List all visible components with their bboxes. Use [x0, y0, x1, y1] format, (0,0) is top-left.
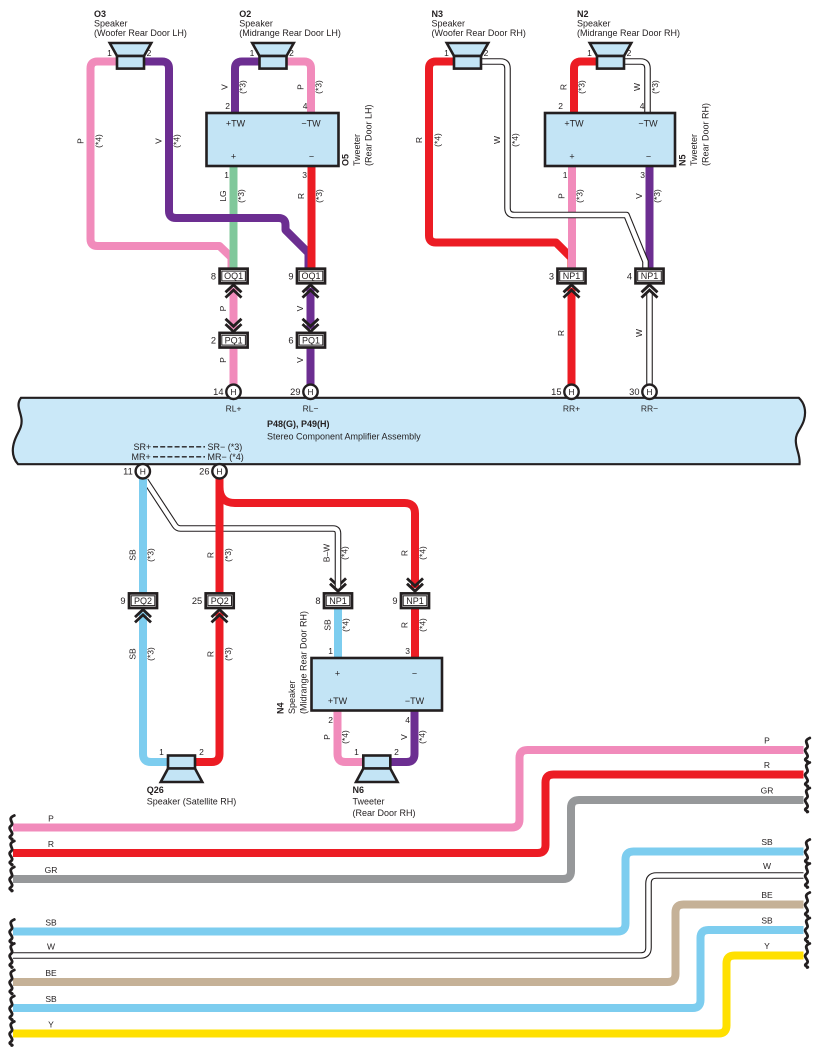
svg-text:W: W	[634, 329, 644, 337]
wire P (*4) speaker N4 pin2 to tweeter N6 pin1	[322, 711, 364, 762]
svg-text:H: H	[230, 387, 236, 397]
svg-text:R: R	[206, 651, 216, 657]
svg-text:NP1: NP1	[641, 271, 659, 281]
svg-text:SB: SB	[761, 837, 773, 847]
svg-text:(Midrange Rear Door RH): (Midrange Rear Door RH)	[299, 611, 309, 714]
svg-text:Tweeter: Tweeter	[353, 797, 385, 807]
speaker unit N4 (midrange rear door RH)	[276, 611, 443, 725]
svg-text:R: R	[556, 330, 566, 336]
svg-text:P: P	[557, 193, 567, 199]
svg-text:MR+: MR+	[132, 452, 151, 462]
svg-text:P: P	[218, 357, 228, 363]
svg-text:25: 25	[192, 596, 202, 606]
wire SB (*3) amplifier pin 11 to connector PQ2-9	[128, 478, 156, 593]
svg-text:2: 2	[484, 48, 489, 58]
svg-text:Tweeter: Tweeter	[352, 134, 362, 166]
amplifier pin 29 (H) RL-	[290, 385, 318, 399]
junction chevrons below OQ1-9	[303, 285, 319, 298]
svg-text:N5: N5	[678, 154, 688, 166]
svg-text:1: 1	[444, 48, 449, 58]
wire B-W (*4) amplifier pin 11 to connector NP1-8	[146, 481, 350, 592]
svg-text:3: 3	[302, 170, 307, 180]
svg-text:GR: GR	[761, 786, 774, 796]
svg-text:6: 6	[288, 336, 293, 346]
svg-text:P: P	[48, 814, 54, 824]
svg-text:V: V	[295, 357, 305, 363]
svg-text:1: 1	[328, 646, 333, 656]
svg-text:OQ1: OQ1	[301, 271, 320, 281]
speaker O3 (woofer rear door LH)	[94, 9, 187, 69]
svg-text:SR+: SR+	[134, 442, 152, 452]
svg-text:(*3): (*3)	[146, 647, 156, 661]
svg-text:V: V	[220, 84, 230, 90]
svg-text:W: W	[632, 83, 642, 91]
svg-text:BE: BE	[45, 968, 57, 978]
svg-text:30: 30	[629, 387, 639, 397]
svg-text:R: R	[414, 137, 424, 143]
svg-text:SR− (*3): SR− (*3)	[208, 442, 243, 452]
wire P connector OQ1-8 to PQ1-2	[218, 288, 234, 329]
svg-text:(*4): (*4)	[341, 618, 351, 632]
junction chevrons below PQ2-25	[212, 610, 228, 623]
wire P connector PQ1-2 to amplifier pin 14	[218, 347, 234, 387]
junction chevrons above NP1-8	[0, 0, 1, 1]
svg-text:Speaker (Satellite RH): Speaker (Satellite RH)	[147, 797, 237, 807]
svg-text:Speaker: Speaker	[239, 19, 273, 29]
svg-text:(*4): (*4)	[340, 730, 350, 744]
wire P (*4) speaker O3 pin1 to connector OQ1-8	[76, 62, 232, 269]
svg-text:V: V	[154, 138, 164, 144]
svg-text:R: R	[206, 552, 216, 558]
svg-text:Stereo Component Amplifier Ass: Stereo Component Amplifier Assembly	[267, 432, 421, 442]
harness wire W (to front)	[10, 861, 810, 968]
wire V (*4) speaker N4 pin4 to tweeter N6 pin2	[390, 711, 428, 762]
wire R (*4) speaker N3 pin1 to connector NP1-3	[414, 62, 572, 269]
junction chevrons below NP1-3	[564, 285, 580, 298]
svg-text:(*3): (*3)	[575, 189, 585, 203]
svg-text:Tweeter: Tweeter	[689, 134, 699, 166]
svg-text:H: H	[307, 387, 313, 397]
svg-text:H: H	[140, 466, 146, 476]
speaker N2 (midrange rear door RH)	[577, 9, 680, 69]
svg-text:LG: LG	[218, 190, 228, 201]
svg-text:(*4): (*4)	[94, 134, 104, 148]
svg-text:B–W: B–W	[322, 544, 332, 562]
svg-text:W: W	[763, 861, 771, 871]
connector PQ1 pin 6	[288, 333, 325, 348]
svg-text:(Midrange Rear Door RH): (Midrange Rear Door RH)	[577, 28, 680, 38]
svg-text:V: V	[399, 734, 409, 740]
connector OQ1 pin 8	[211, 269, 248, 284]
speaker N3 (woofer rear door RH)	[432, 9, 526, 69]
svg-text:(*4): (*4)	[172, 134, 182, 148]
wire W (*3) speaker N2 pin2 to tweeter N5 pin4	[623, 62, 660, 115]
wire P (*3) speaker O2 pin2 to tweeter O5 pin4	[285, 62, 324, 115]
svg-text:Speaker: Speaker	[432, 19, 466, 29]
svg-text:2: 2	[199, 747, 204, 757]
svg-text:9: 9	[120, 596, 125, 606]
svg-text:2: 2	[211, 336, 216, 346]
svg-text:8: 8	[315, 596, 320, 606]
svg-text:+TW: +TW	[328, 696, 348, 706]
harness wire SB (to front)	[10, 837, 810, 944]
svg-text:+: +	[231, 152, 236, 162]
svg-text:(*4): (*4)	[418, 546, 428, 560]
svg-text:−: −	[646, 152, 651, 162]
svg-text:R: R	[400, 622, 410, 628]
svg-text:9: 9	[288, 271, 293, 281]
amplifier pin 11 (H)	[123, 464, 150, 478]
amplifier pin 14 (H) RL+	[213, 385, 241, 399]
junction chevrons above NP1-9	[407, 578, 423, 591]
svg-text:(*4): (*4)	[340, 546, 350, 560]
svg-text:Speaker: Speaker	[577, 19, 611, 29]
svg-text:P: P	[296, 84, 306, 90]
connector NP1 pin 3	[549, 269, 586, 284]
harness wire R (to front)	[10, 760, 810, 865]
svg-text:2: 2	[328, 715, 333, 725]
svg-text:(*4): (*4)	[418, 618, 428, 632]
svg-text:−TW: −TW	[301, 119, 321, 129]
amplifier pin 26 (H)	[199, 464, 227, 478]
svg-text:29: 29	[290, 387, 300, 397]
svg-text:9: 9	[392, 596, 397, 606]
wire R (*4) amplifier pin 26 branch to connector NP1-9	[220, 479, 428, 588]
svg-text:GR: GR	[45, 865, 58, 875]
svg-text:R: R	[400, 550, 410, 556]
svg-text:(Rear Door RH): (Rear Door RH)	[353, 808, 416, 818]
svg-text:8: 8	[211, 271, 216, 281]
svg-text:26: 26	[199, 467, 209, 477]
svg-text:SB: SB	[45, 918, 57, 928]
wire R (*3) tweeter O5 pin3 to connector OQ1-9	[296, 165, 324, 268]
tweeter N6 (rear door RH)	[353, 747, 416, 818]
harness wire SB 2 (to front)	[10, 916, 810, 1021]
svg-text:1: 1	[107, 48, 112, 58]
svg-text:N3: N3	[432, 9, 444, 19]
svg-text:3: 3	[549, 271, 554, 281]
svg-text:H: H	[568, 387, 574, 397]
amplifier assembly P48(G)/P49(H) band	[13, 398, 805, 464]
amplifier pin 15 (H) RR+	[551, 385, 579, 399]
svg-text:SB: SB	[128, 648, 138, 660]
svg-text:BE: BE	[761, 890, 773, 900]
svg-text:V: V	[634, 193, 644, 199]
svg-text:N2: N2	[577, 9, 589, 19]
wire V connector OQ1-9 to PQ1-6	[295, 288, 311, 329]
svg-text:PQ2: PQ2	[211, 596, 229, 606]
junction chevrons above PQ1-2	[226, 319, 242, 332]
svg-text:3: 3	[640, 170, 645, 180]
connector PQ2 pin 9	[120, 593, 157, 608]
svg-text:4: 4	[303, 101, 308, 111]
svg-text:O2: O2	[239, 9, 251, 19]
svg-text:(*3): (*3)	[236, 189, 246, 203]
svg-text:−TW: −TW	[405, 696, 425, 706]
svg-text:(*3): (*3)	[238, 80, 248, 94]
svg-text:(*3): (*3)	[577, 80, 587, 94]
svg-text:+TW: +TW	[564, 119, 584, 129]
connector OQ1 pin 9	[288, 269, 325, 284]
wire R (*4) connector NP1-9 to speaker N4 pin3	[400, 608, 428, 658]
wire P (*3) tweeter N5 pin1 to connector NP1-3	[557, 165, 585, 268]
svg-text:NP1: NP1	[329, 596, 347, 606]
svg-text:(Midrange Rear Door LH): (Midrange Rear Door LH)	[239, 28, 341, 38]
harness wire Y (to front)	[10, 941, 810, 1046]
speaker O2 (midrange rear door LH)	[239, 9, 341, 69]
svg-text:(Woofer Rear Door RH): (Woofer Rear Door RH)	[432, 28, 526, 38]
svg-text:SB: SB	[761, 916, 773, 926]
svg-text:1: 1	[587, 48, 592, 58]
svg-text:15: 15	[551, 387, 561, 397]
svg-text:H: H	[216, 466, 222, 476]
svg-text:P48(G), P49(H): P48(G), P49(H)	[267, 419, 330, 429]
svg-text:1: 1	[224, 170, 229, 180]
svg-text:2: 2	[225, 101, 230, 111]
wire R (*3) amplifier pin 26 to connector PQ2-25	[206, 478, 234, 593]
svg-text:PQ2: PQ2	[134, 596, 152, 606]
svg-text:P: P	[218, 305, 228, 311]
junction chevrons above PQ1-6	[303, 319, 319, 332]
svg-text:O5: O5	[341, 154, 351, 166]
svg-text:(*3): (*3)	[146, 548, 156, 562]
wire V (*4) speaker O3 pin2 to connector OQ1-9	[143, 62, 309, 269]
svg-text:R: R	[48, 839, 54, 849]
svg-text:N4: N4	[276, 702, 286, 714]
svg-text:−: −	[309, 152, 314, 162]
net SR+ to SR- internal link	[134, 442, 243, 452]
svg-text:(*3): (*3)	[223, 647, 233, 661]
svg-text:Speaker: Speaker	[94, 19, 128, 29]
svg-text:2: 2	[147, 48, 152, 58]
svg-text:−TW: −TW	[638, 119, 658, 129]
svg-text:P: P	[322, 734, 332, 740]
svg-text:(*3): (*3)	[314, 189, 324, 203]
svg-text:P: P	[764, 736, 770, 746]
svg-text:(*4): (*4)	[417, 730, 427, 744]
harness wire GR (to front)	[10, 786, 810, 892]
svg-text:(*4): (*4)	[433, 133, 443, 147]
svg-text:V: V	[295, 305, 305, 311]
svg-text:R: R	[296, 193, 306, 199]
svg-text:3: 3	[405, 646, 410, 656]
svg-text:W: W	[492, 136, 502, 144]
svg-text:(*3): (*3)	[223, 548, 233, 562]
svg-text:(*3): (*3)	[314, 80, 324, 94]
net MR+ to MR- internal link	[132, 452, 244, 462]
svg-text:Speaker: Speaker	[287, 680, 297, 714]
svg-text:2: 2	[289, 48, 294, 58]
wire V (*3) speaker O2 pin1 to tweeter O5 pin2	[220, 62, 262, 115]
svg-text:+: +	[335, 669, 340, 679]
wire R (*3) connector PQ2-25 to speaker Q26 pin2	[195, 612, 234, 762]
wire V (*3) tweeter N5 pin3 to connector NP1-4	[634, 165, 662, 268]
svg-text:O3: O3	[94, 9, 106, 19]
svg-text:SB: SB	[45, 994, 57, 1004]
junction chevrons below NP1-4	[642, 285, 658, 298]
svg-text:4: 4	[640, 101, 645, 111]
svg-text:+TW: +TW	[226, 119, 246, 129]
svg-text:(*4): (*4)	[510, 133, 520, 147]
svg-text:H: H	[646, 387, 652, 397]
svg-text:SB: SB	[323, 619, 333, 631]
svg-text:1: 1	[354, 747, 359, 757]
svg-text:MR− (*4): MR− (*4)	[208, 452, 244, 462]
svg-text:(Rear Door RH): (Rear Door RH)	[701, 103, 711, 166]
svg-text:RL−: RL−	[303, 404, 319, 414]
svg-text:R: R	[764, 760, 770, 770]
svg-text:(*3): (*3)	[650, 80, 660, 94]
svg-text:(*3): (*3)	[652, 189, 662, 203]
svg-text:(Woofer Rear Door LH): (Woofer Rear Door LH)	[94, 28, 187, 38]
wire W (*4) speaker N3 pin2 to connector NP1-4	[480, 62, 646, 269]
wire SB (*3) connector PQ2-9 to speaker Q26 pin1	[128, 612, 169, 762]
svg-text:2: 2	[627, 48, 632, 58]
wire W connector NP1-4 to amplifier pin 30	[634, 293, 650, 387]
junction chevrons below OQ1-8	[226, 285, 242, 298]
svg-text:W: W	[47, 942, 55, 952]
connector NP1 pin 8	[315, 593, 352, 608]
svg-text:14: 14	[213, 387, 223, 397]
svg-text:PQ1: PQ1	[302, 335, 320, 345]
svg-text:1: 1	[563, 170, 568, 180]
wire SB (*4) connector NP1-8 to speaker N4 pin1	[323, 608, 351, 658]
svg-text:1: 1	[250, 48, 255, 58]
harness wire P (to front)	[10, 736, 810, 840]
svg-text:NP1: NP1	[563, 271, 581, 281]
svg-text:2: 2	[558, 101, 563, 111]
svg-text:Y: Y	[48, 1020, 54, 1030]
svg-text:Y: Y	[764, 941, 770, 951]
svg-text:4: 4	[627, 271, 632, 281]
wire R connector NP1-3 to amplifier pin 15	[556, 288, 572, 387]
svg-text:2: 2	[394, 747, 399, 757]
svg-text:N6: N6	[353, 785, 365, 795]
svg-text:P: P	[76, 138, 86, 144]
svg-text:Q26: Q26	[147, 785, 164, 795]
amplifier pin 30 (H) RR-	[629, 385, 657, 399]
svg-text:1: 1	[159, 747, 164, 757]
svg-text:(Rear Door LH): (Rear Door LH)	[364, 104, 374, 166]
svg-text:NP1: NP1	[406, 596, 424, 606]
svg-text:PQ1: PQ1	[225, 335, 243, 345]
connector NP1 pin 9	[392, 593, 429, 608]
connector NP1 pin 4	[627, 269, 664, 284]
svg-text:SB: SB	[128, 549, 138, 561]
svg-text:OQ1: OQ1	[224, 271, 243, 281]
svg-text:4: 4	[405, 715, 410, 725]
connector PQ2 pin 25	[192, 593, 234, 608]
connector PQ1 pin 2	[211, 333, 248, 348]
svg-text:−: −	[412, 669, 417, 679]
harness wire BE (to front)	[10, 890, 810, 994]
svg-text:+: +	[569, 152, 574, 162]
svg-text:11: 11	[123, 467, 133, 477]
speaker Q26 (satellite RH)	[147, 747, 237, 807]
tweeter unit N5 (rear door RH)	[545, 101, 711, 180]
wire LG (*3) tweeter O5 pin1 to connector OQ1-8	[218, 165, 246, 268]
wire V connector PQ1-6 to amplifier pin 29	[295, 347, 311, 387]
wire R (*3) speaker N2 pin1 to tweeter N5 pin2	[559, 62, 599, 115]
junction chevrons below PQ2-9	[135, 610, 151, 623]
svg-text:RR−: RR−	[641, 404, 658, 414]
svg-text:RL+: RL+	[226, 404, 242, 414]
svg-text:RR+: RR+	[563, 404, 580, 414]
svg-text:R: R	[559, 84, 569, 90]
tweeter unit O5 (rear door LH)	[207, 101, 374, 180]
